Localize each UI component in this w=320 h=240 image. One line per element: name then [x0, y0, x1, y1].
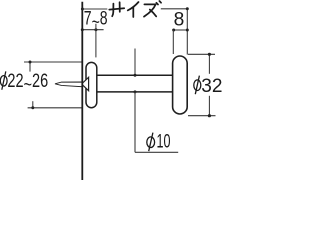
left bracket capsule: [86, 62, 97, 107]
dimension 7-8 dot left: [81, 28, 84, 31]
bar center dot top: [134, 74, 137, 77]
bar center tick: [134, 49, 136, 76]
label phi10: [147, 133, 155, 152]
dimension phi32 dot bottom: [208, 114, 211, 117]
dimension phi32 ext bottom: [188, 115, 216, 117]
pole (vertical pipe): [81, 2, 83, 180]
right knob capsule: [173, 56, 188, 114]
svg-text:32: 32: [201, 76, 222, 97]
bar center dot bottom: [134, 90, 137, 93]
bar bottom line: [97, 91, 173, 93]
svg-text:22~26: 22~26: [7, 71, 48, 96]
svg-text:10: 10: [157, 131, 171, 152]
dimension 8 line: [172, 29, 187, 31]
label phi22-26: [0, 71, 7, 89]
title leader dot at corner: [186, 7, 189, 10]
svg-text:8: 8: [174, 10, 185, 31]
title text "size" katakana sa: [109, 2, 124, 16]
dimension 8 ext line down: [172, 30, 174, 54]
svg-text:7~8: 7~8: [84, 9, 108, 34]
dimension phi32 line bottom segment: [208, 96, 210, 116]
dimension 8 dot right: [186, 29, 189, 32]
dimension 8 dot left: [172, 29, 175, 32]
dimension phi32 ext top: [188, 53, 215, 55]
title text katakana zu: [144, 1, 161, 17]
dimension 7-8 ext line down: [95, 24, 97, 58]
title leader line right segment: [161, 8, 188, 10]
title text katakana i: [128, 2, 139, 17]
dimension phi32 dot top: [208, 53, 211, 56]
dimension dot phi22-26 top: [29, 61, 32, 64]
dimension ext line phi22-26 bottom: [28, 101, 83, 108]
dimension dot phi22-26 bottom: [31, 106, 34, 109]
pointer arrow fletch: [82, 77, 89, 90]
dimension ext line phi22-26 top: [24, 62, 83, 72]
label phi32: [194, 76, 201, 95]
dimension 7-8 dot right: [94, 28, 97, 31]
dimension 7-8 line: [82, 29, 103, 31]
bar top line: [97, 74, 173, 76]
title leader vertical: [186, 9, 188, 55]
dimension phi32 line top segment: [208, 54, 210, 74]
title leader line left segment: [82, 8, 107, 10]
title leader dot on pole: [81, 8, 84, 11]
pointer arrow needle: [55, 82, 82, 87]
leader phi10: [135, 92, 178, 152]
